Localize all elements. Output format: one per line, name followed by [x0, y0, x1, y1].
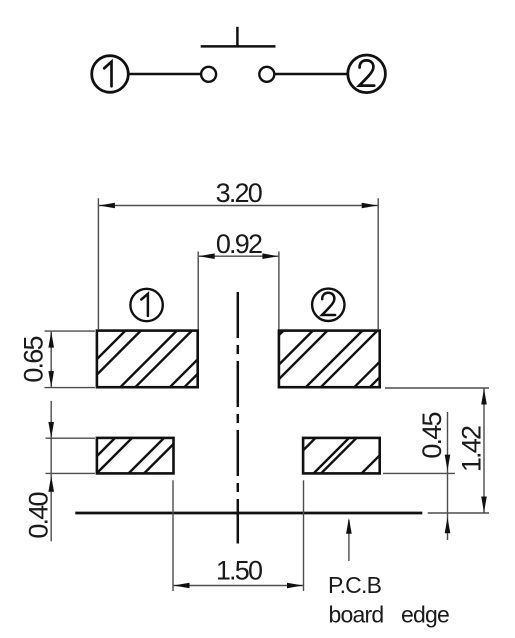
0.40 upper outside arrow (points down)	[48, 422, 54, 438]
0.65 top arrow	[48, 332, 54, 348]
3.20 extension line right	[377, 198, 379, 330]
switch symbol: terminal circle 1	[92, 56, 129, 93]
1.42 dimension line	[483, 388, 485, 513]
0.92 extension line right	[278, 252, 280, 330]
0.65 dimension line	[50, 331, 52, 388]
pad number 1	[141, 294, 148, 316]
svg-text:P.C.B: P.C.B	[328, 572, 382, 598]
vertical centerline (dash-dot)	[237, 292, 240, 544]
0.40 dimension line	[50, 401, 52, 541]
0.92 right arrow	[262, 253, 278, 259]
0.45 extension line at small pad bottom	[383, 472, 455, 474]
pad 2 outline (big right pad)	[279, 331, 380, 388]
3.20 dimension line	[98, 205, 378, 207]
0.45 dimension line	[447, 412, 449, 540]
wire from terminal 1 to left contact	[128, 73, 201, 75]
1.50 dimension line	[173, 585, 304, 587]
wire from right contact to terminal 2	[274, 73, 347, 75]
0.45 upper outside arrow (points down)	[445, 455, 451, 471]
small right pad outline	[303, 438, 380, 474]
1.42 top arrow	[481, 389, 487, 405]
3.20 right arrow	[362, 203, 378, 209]
0.65 extension line bottom	[45, 387, 96, 389]
1.50 right arrow	[287, 583, 303, 589]
0.40 extension line bottom	[46, 472, 96, 474]
small right pad hatching	[303, 438, 380, 474]
1.50 extension line left	[172, 480, 174, 591]
P.C.B board edge line	[75, 512, 422, 515]
pad number circle 2	[312, 289, 344, 321]
pad 2 hatching	[279, 331, 380, 388]
1.50 left arrow	[174, 583, 190, 589]
leader line for P.C.B board edge	[348, 520, 350, 561]
actuator bar	[201, 45, 276, 48]
pad 1 outline (big left pad)	[97, 331, 198, 388]
0.92 extension line left	[197, 252, 199, 330]
board edge extension line right	[428, 512, 489, 514]
pad number circle 1	[130, 289, 162, 321]
0.65 extension line top	[45, 330, 96, 332]
0.65 bottom arrow	[48, 371, 54, 387]
pad 1 hatching	[97, 331, 198, 388]
small left pad outline	[97, 438, 174, 474]
svg-text:0.92: 0.92	[216, 229, 262, 259]
svg-text:1.50: 1.50	[216, 556, 262, 586]
svg-text:0.45: 0.45	[417, 413, 447, 459]
svg-text:board: board	[329, 601, 384, 627]
0.92 left arrow	[199, 253, 215, 259]
actuator stem	[236, 27, 239, 48]
1.50 extension line right	[303, 480, 305, 591]
right contact circle	[259, 67, 274, 82]
1.42 extension line at pad bottom	[385, 387, 489, 389]
pad number 2	[322, 293, 335, 315]
switch symbol: pin 1 number	[104, 62, 111, 87]
0.40 lower outside arrow (points up)	[48, 476, 54, 492]
switch symbol: terminal circle 2	[348, 55, 386, 93]
small left pad hatching	[97, 438, 174, 474]
svg-text:1.42: 1.42	[457, 426, 487, 472]
svg-text:edge: edge	[401, 601, 449, 627]
switch symbol: pin 2 number	[359, 60, 374, 85]
svg-text:3.20: 3.20	[216, 178, 262, 208]
3.20 left arrow	[99, 203, 115, 209]
leader arrow to board edge	[346, 518, 352, 534]
1.42 bottom arrow	[481, 497, 487, 513]
0.40 extension line top	[46, 437, 96, 439]
left contact circle	[201, 67, 216, 82]
0.92 dimension line	[198, 255, 279, 257]
svg-text:0.40: 0.40	[24, 493, 54, 539]
0.45 lower outside arrow (points up)	[445, 517, 451, 533]
3.20 extension line left	[97, 198, 99, 330]
svg-text:0.65: 0.65	[19, 337, 49, 383]
